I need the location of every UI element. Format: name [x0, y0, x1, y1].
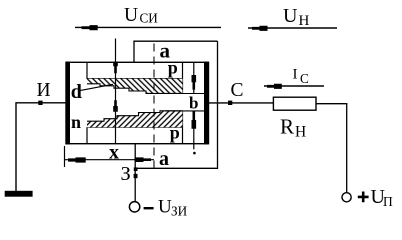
gate terminal circle [129, 202, 139, 212]
supply terminal circle [342, 193, 351, 202]
bottom depletion wedge (hatched) [87, 111, 183, 127]
node C dot [228, 101, 232, 105]
gate wire down [134, 144, 138, 202]
svg-text:U: U [283, 5, 298, 27]
drain electrode (right thick bar) [204, 62, 209, 145]
svg-text:Н: Н [295, 124, 306, 141]
x dimension [65, 142, 155, 168]
svg-text:a: a [159, 148, 169, 170]
transistor body outer box [66, 62, 209, 143]
b dimension line upper [192, 63, 197, 93]
ground [5, 191, 33, 197]
label +U_P [358, 186, 393, 209]
bottom p region box [87, 111, 183, 144]
top gate contact box [133, 41, 217, 62]
resistor R_N [273, 97, 316, 140]
wire resistor to supply [316, 104, 347, 193]
node И dot [38, 101, 42, 105]
svg-text:n: n [71, 112, 81, 132]
svg-text:И: И [37, 80, 51, 101]
svg-text:I: I [293, 67, 298, 83]
svg-text:СИ: СИ [140, 11, 159, 26]
svg-text:ЗИ: ЗИ [171, 204, 188, 219]
svg-text:x: x [109, 142, 119, 164]
svg-text:П: П [383, 194, 393, 209]
svg-text:С: С [231, 80, 244, 101]
source terminal wire [15, 103, 66, 191]
U_N annotation line with left arrow [248, 5, 337, 31]
top p region box [87, 62, 183, 93]
drain wire [209, 102, 274, 104]
source electrode (left thick bar) [66, 62, 70, 145]
U_CI annotation line with left arrow [75, 5, 221, 30]
I_C annotation line with left arrow [264, 67, 324, 89]
channel upper boundary at drain end [182, 93, 204, 95]
gate loop right wire [217, 41, 219, 168]
label d with pointer line [71, 81, 113, 103]
svg-text:d: d [71, 81, 82, 103]
b dimension line lower [192, 111, 197, 149]
centre vertical reference line with arrows [113, 39, 118, 144]
node З dot [134, 174, 138, 178]
channel lower boundary at drain end [165, 110, 204, 112]
svg-text:С: С [300, 71, 309, 86]
svg-text:З: З [121, 163, 131, 185]
svg-text:a: a [160, 39, 171, 63]
top depletion wedge (hatched) [87, 79, 183, 94]
label -U_ZI [144, 197, 188, 219]
svg-text:b: b [189, 94, 198, 113]
gate loop bottom wire [136, 167, 219, 169]
svg-text:U: U [124, 5, 138, 26]
svg-text:R: R [280, 115, 294, 139]
svg-text:Н: Н [299, 13, 310, 29]
small dot [193, 152, 196, 155]
svg-text:U: U [158, 197, 172, 218]
dashed section line [153, 44, 155, 169]
